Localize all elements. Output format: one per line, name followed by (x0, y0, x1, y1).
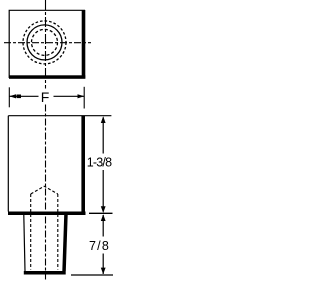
hidden chevron (drill point) (31, 186, 58, 194)
horizontal centerline (top view) (4, 42, 91, 44)
square head thick bottom edge (9, 75, 85, 79)
shank thick right edge (62, 215, 67, 271)
svg-text:1-3/8: 1-3/8 (87, 156, 112, 170)
bottom extension line (shank bottom) (71, 274, 113, 276)
arrow up (1-3/8 top) (101, 116, 106, 123)
front view body thick right edge (81, 116, 85, 215)
front view body thick bottom edge (8, 212, 86, 216)
dimension line 1-3/8 (102, 118, 104, 212)
square head outline, top view (thin top+left) (9, 10, 85, 78)
F dimension right arrowhead (78, 94, 85, 98)
F dimension line (9, 95, 84, 97)
F dimension left extension line (8, 87, 10, 107)
mid extension line (body bottom) (89, 212, 113, 214)
vertical centerline (shared, top + front view) (45, 0, 47, 281)
shank left edge (24, 215, 25, 271)
arrow down (7/8 bottom) (101, 268, 106, 275)
shank thick bottom edge (24, 271, 66, 275)
svg-text:7/8: 7/8 (89, 239, 110, 253)
arrow down (1-3/8 bottom) (101, 206, 106, 213)
F dimension left arrowhead (9, 94, 16, 98)
hidden line right (57, 194, 59, 270)
dimension line 7/8 (102, 215, 104, 274)
arrow up (7/8 top) (101, 214, 106, 221)
svg-text:F: F (41, 89, 50, 105)
middle solid circle (27, 25, 62, 60)
front view body top edge + top extension line (8, 115, 111, 117)
outer dashed circle (23, 21, 66, 64)
square head thick right edge (82, 10, 86, 79)
hidden line left (30, 194, 32, 270)
inner dashed circle (32, 29, 58, 55)
F dimension right extension line (83, 87, 85, 109)
front view body left edge (7, 116, 9, 212)
